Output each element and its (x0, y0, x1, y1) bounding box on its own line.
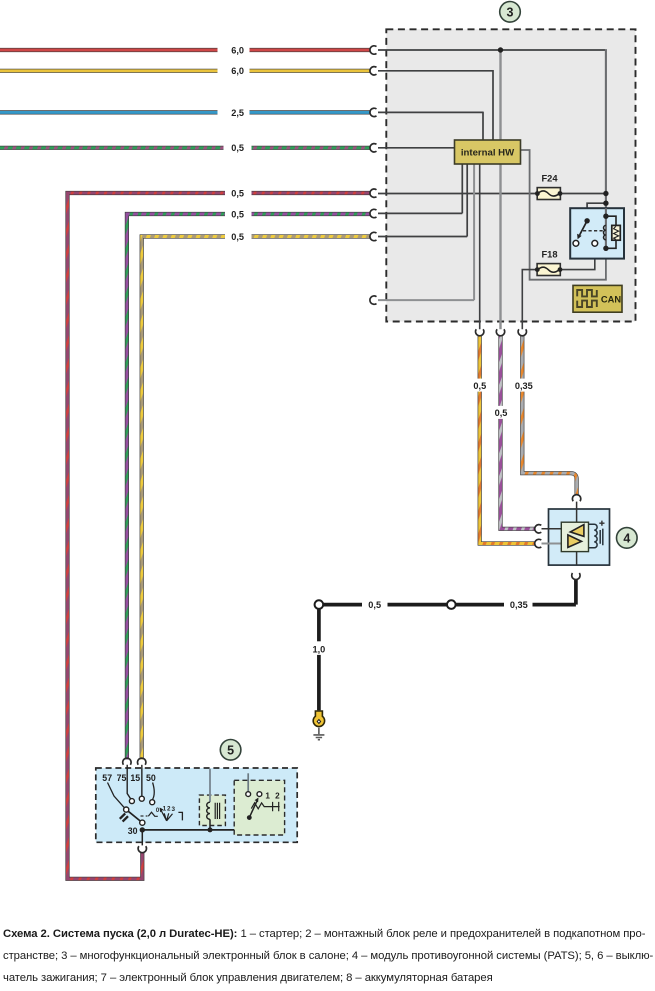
connector row8 (370, 296, 377, 304)
wire row2 internal (378, 70, 493, 140)
pin 50 stem (153, 783, 155, 800)
wire violet-gray 0,5 exit2 (501, 336, 536, 529)
wire yellow-orange 0,5 exit1 (480, 336, 536, 544)
ring terminal lug (313, 711, 324, 726)
ignition lever (128, 811, 140, 821)
relay coil top junction (603, 214, 608, 219)
pin 57 stem (108, 783, 125, 808)
svg-text:1,0: 1,0 (313, 644, 326, 654)
svg-text:0,35: 0,35 (510, 600, 528, 610)
ECU contact box 7 (234, 773, 284, 835)
connector row7 (370, 232, 377, 240)
contact circle 75 (129, 799, 134, 804)
wire coil feed inside relay (605, 208, 607, 248)
svg-text:6,0: 6,0 (231, 66, 244, 76)
zigzag H symbol (251, 803, 279, 809)
connector module4 left1 (535, 525, 542, 533)
svg-text:0,5: 0,5 (231, 188, 244, 198)
relay K (inside module 3) (570, 208, 624, 258)
svg-text:0,5: 0,5 (473, 381, 486, 391)
wire red 6,0 row1 (0, 48, 371, 52)
circled label 5 (220, 740, 241, 761)
pin wire bottom (576, 552, 578, 566)
key bars (120, 813, 128, 821)
connector module4 left2 (535, 539, 542, 547)
wire relay switch branch (587, 203, 606, 221)
fuse F18 (535, 250, 563, 276)
antenna coil (589, 524, 598, 548)
pin 30 exit stub (141, 830, 143, 846)
mechanical link dashed (141, 815, 148, 817)
connector row4 (370, 144, 377, 152)
svg-text:F24: F24 (541, 174, 558, 184)
rotor contact circle 30 (140, 820, 145, 825)
module 3 box (multifunctional electronic module) (386, 29, 635, 321)
relay mechanical link dashed (583, 230, 603, 232)
transceiver triangle down (568, 535, 582, 548)
wire violet-green 0,5 row6 (127, 214, 371, 759)
wire row6 internal (378, 164, 462, 213)
pin 75 wire stub (127, 765, 130, 799)
wire F18 left to exit3 (522, 270, 537, 330)
wire tan-yellow 0,5 row7 (142, 237, 371, 760)
wire gray-orange 0,35 exit3 (522, 336, 576, 495)
connector row6 (370, 209, 377, 217)
junction node F24 right (603, 191, 608, 196)
circled label 3 (500, 2, 521, 23)
wire battery branch to exit2 (499, 50, 501, 329)
junction node switch branch (603, 201, 608, 206)
svg-text:CAN: CAN (601, 295, 621, 305)
svg-text:3: 3 (171, 806, 175, 813)
contact circle 2 (257, 792, 262, 797)
wire row3 internal (378, 112, 483, 140)
ground wire horizontal (319, 603, 576, 607)
svg-text:F18: F18 (541, 250, 557, 260)
relay coil inductor (604, 225, 606, 239)
svg-text:0,5: 0,5 (231, 209, 244, 219)
wire 30 bus (142, 818, 249, 830)
svg-text:3: 3 (507, 5, 514, 19)
junction 30 (140, 827, 145, 832)
connector row5 (370, 189, 377, 197)
plus sign (599, 521, 604, 526)
svg-text:4: 4 (623, 531, 630, 545)
svg-text:30: 30 (128, 826, 138, 836)
svg-text:1: 1 (265, 792, 270, 801)
label gaps (362, 598, 388, 612)
caption line 3 (3, 972, 655, 984)
svg-text:internal HW: internal HW (461, 147, 515, 158)
connector module5 pin30 (138, 846, 146, 853)
wire row5 internal to F24 (378, 193, 537, 195)
connector row2 (370, 67, 377, 75)
svg-text:6,0: 6,0 (231, 45, 244, 55)
wire row1 internal (battery feed) (378, 49, 605, 51)
contact circle 57 (124, 807, 129, 812)
position fan 0 1 2 3 (156, 806, 182, 821)
ground wire drop to earth (317, 605, 321, 711)
svg-text:0,5: 0,5 (231, 232, 244, 242)
wire F18 right to relay contact (560, 246, 595, 269)
contact circle 15 (139, 796, 144, 801)
transceiver triangle up (570, 525, 584, 537)
wire label gaps (218, 43, 250, 57)
contact circle 1 (246, 792, 251, 797)
svg-text:2: 2 (167, 806, 171, 813)
svg-text:50: 50 (146, 773, 156, 783)
module 5 box (ignition switch assembly) (96, 768, 297, 842)
svg-text:0,5: 0,5 (495, 408, 508, 418)
connector exit3 (518, 329, 526, 336)
solenoid box 6 (199, 769, 225, 833)
wire row8 internal gray (378, 164, 474, 300)
wire yellow 6,0 row2 (0, 69, 371, 73)
pin wire top (576, 502, 578, 523)
wire blue 2,5 row3 (0, 110, 371, 114)
wire F24 to vertical (560, 193, 606, 195)
ground wire riser to module 4 (574, 579, 578, 604)
node B (447, 600, 456, 609)
svg-text:0,35: 0,35 (515, 381, 533, 391)
caption line 2 (3, 950, 655, 962)
svg-text:75: 75 (117, 773, 127, 783)
connector exit1 (476, 329, 484, 336)
connector exit2 (496, 329, 504, 336)
solenoid coil (207, 802, 210, 819)
pin wire left 1 (542, 528, 562, 530)
relay contact 2 (592, 240, 598, 246)
core bars (600, 529, 603, 546)
pin wire left 2 gray (542, 543, 562, 545)
contact circle 50 (150, 800, 155, 805)
svg-text:5: 5 (227, 743, 234, 757)
connector module4 top (572, 495, 580, 502)
wire vertical to relay (605, 49, 607, 248)
wire row4 internal (378, 147, 455, 149)
svg-text:57: 57 (102, 773, 112, 783)
solenoid core bars (215, 803, 219, 819)
transceiver box (561, 522, 588, 551)
relay resistor wires (606, 216, 616, 248)
module 4 PATS box (542, 502, 610, 565)
junction solenoid (208, 827, 213, 832)
ground symbol (313, 735, 324, 740)
contact arm with arrow (249, 801, 256, 817)
relay lever (580, 221, 588, 235)
relay coil bottom junction (603, 246, 608, 251)
svg-text:15: 15 (130, 773, 140, 783)
wire internal HW right pin relay coil return (521, 150, 606, 280)
caption line 1 (3, 928, 655, 940)
wire row7 internal (378, 164, 467, 237)
relay lever arrowhead (577, 234, 582, 239)
svg-text:0,5: 0,5 (368, 600, 381, 610)
connector row3 (370, 108, 377, 116)
svg-text:2: 2 (275, 792, 280, 801)
relay switch pivot (584, 218, 589, 223)
node A (315, 600, 324, 609)
junction node on battery row (498, 47, 503, 52)
CAN box (573, 285, 622, 312)
wire internal HW to exit1 (479, 164, 481, 329)
svg-text:2,5: 2,5 (231, 108, 244, 118)
wire green-violet 0,5 row4 (0, 146, 371, 150)
svg-text:0,5: 0,5 (231, 143, 244, 153)
fuse F24 (535, 174, 562, 200)
circled label 4 (617, 528, 638, 549)
connector module5 top2 (137, 758, 145, 765)
pin labels 57 75 15 50 (102, 773, 156, 783)
connector row1 (370, 46, 377, 54)
svg-text:1: 1 (163, 806, 167, 813)
wire maroon-red 0,5 row5 loop to pin30 (68, 193, 371, 879)
pin 15 wire stub (141, 765, 143, 796)
connector module4 bottom (572, 573, 580, 580)
connector module5 top1 (123, 758, 131, 765)
solenoid feed stub (209, 769, 211, 802)
stub to contact 1 (247, 773, 249, 791)
relay contact 1 (573, 240, 579, 246)
relay resistor (612, 225, 621, 240)
internal HW box U3a (455, 140, 521, 164)
